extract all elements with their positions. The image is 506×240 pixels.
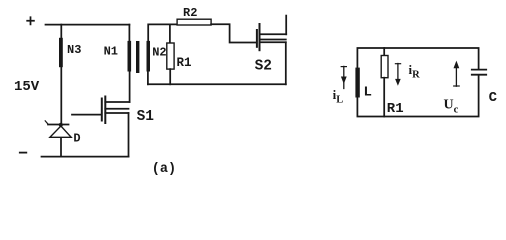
wire bottom rail primary <box>42 156 129 158</box>
resistor R1 load <box>381 56 388 78</box>
svg-text:S2: S2 <box>255 59 272 75</box>
svg-text:Uc: Uc <box>444 98 459 116</box>
resistor R1 secondary <box>167 43 174 69</box>
capacitor C plates <box>472 70 486 75</box>
right circuit loop <box>357 48 478 68</box>
svg-text:iR: iR <box>409 62 421 81</box>
wire N3 to diode <box>60 67 62 124</box>
winding N2 <box>147 41 151 72</box>
transformer core <box>136 41 139 73</box>
svg-text:R1: R1 <box>387 101 404 117</box>
wire R1 bottom <box>169 69 171 84</box>
transistor S1 <box>72 97 130 124</box>
wire N2 top <box>148 24 177 41</box>
node junction dot diode <box>59 123 63 127</box>
diode D cathode bar <box>48 124 69 126</box>
plus terminal <box>27 17 34 24</box>
winding N1 <box>128 41 132 72</box>
svg-text:N3: N3 <box>67 43 81 57</box>
current arrow iL <box>341 66 347 88</box>
wire N2 bottom <box>147 72 149 85</box>
svg-text:N1: N1 <box>104 45 118 59</box>
resistor R2 <box>177 19 211 25</box>
transistor S2 <box>257 24 286 50</box>
wire S1 source down <box>128 113 130 157</box>
current arrow iR <box>395 64 401 86</box>
svg-text:R1: R1 <box>177 56 192 70</box>
wire S2 drain stub up <box>285 16 287 35</box>
node T-junction N3 branch <box>60 25 62 39</box>
wire N1 top drop <box>128 25 130 42</box>
wire R1 branch bottom <box>383 78 385 117</box>
svg-text:D: D <box>73 132 80 146</box>
wire diode to rail <box>60 138 62 157</box>
svg-text:L: L <box>364 85 372 101</box>
wire S2 source down <box>285 42 287 84</box>
diode D triangle <box>50 126 71 137</box>
voltage arrow Uc <box>454 61 460 87</box>
svg-text:R2: R2 <box>183 6 197 20</box>
svg-text:(a): (a) <box>152 162 176 176</box>
wire R1 top drop <box>169 24 171 43</box>
svg-text:iL: iL <box>333 87 344 106</box>
svg-text:C: C <box>489 90 498 106</box>
svg-text:15V: 15V <box>14 79 40 95</box>
wire R1 branch top <box>383 48 385 56</box>
diode D zener tick <box>45 121 48 125</box>
wire top rail primary <box>46 24 130 26</box>
winding N3 <box>59 38 63 67</box>
inductor L winding bar <box>355 68 359 98</box>
wire R2 right to S2 gate <box>211 24 256 42</box>
wire N1 bottom to S1 drain <box>129 71 131 102</box>
svg-text:S1: S1 <box>137 109 155 125</box>
svg-text:N2: N2 <box>152 46 166 60</box>
minus terminal <box>20 152 27 154</box>
wire bottom rail secondary <box>148 83 286 85</box>
